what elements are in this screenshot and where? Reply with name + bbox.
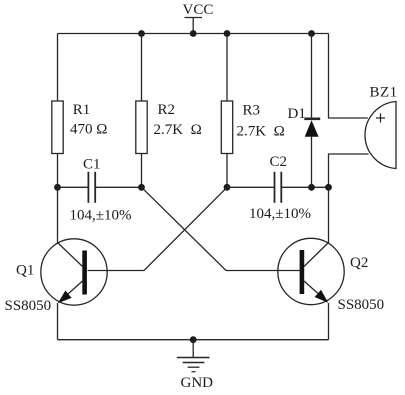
- wire C2 right lead: [281, 186, 328, 188]
- wire R3 top lead: [226, 34, 228, 102]
- svg-text:2.7K Ω: 2.7K Ω: [154, 122, 202, 138]
- plus polarity mark: [376, 114, 385, 123]
- junction D1 bottom: [308, 184, 315, 191]
- buzzer BZ1: [365, 102, 396, 169]
- junction D1 top: [308, 30, 315, 37]
- junction GND: [190, 336, 197, 343]
- svg-text:104,±10%: 104,±10%: [70, 208, 132, 224]
- svg-text:R2: R2: [158, 102, 176, 118]
- resistor R3: [221, 101, 232, 154]
- wire D1 bottom lead: [311, 136, 313, 187]
- resistor R1: [52, 101, 63, 154]
- transistor Q2: [278, 238, 344, 304]
- wire R3 bottom lead: [226, 154, 228, 188]
- wire D1 top lead: [311, 34, 313, 119]
- power symbol VCC: [185, 18, 203, 34]
- wire C1 right lead: [95, 186, 141, 188]
- node B (R2/C1/cross to Q2 base): [138, 184, 145, 191]
- wire Q1 emitter lead: [57, 303, 59, 340]
- svg-text:VCC: VCC: [183, 2, 214, 18]
- svg-text:104,±10%: 104,±10%: [249, 206, 311, 222]
- wire Q2 emitter lead: [328, 303, 330, 340]
- wire buzzer bottom lead: [329, 154, 369, 187]
- transistor Q1: [41, 239, 107, 305]
- junction R2 top: [138, 30, 145, 37]
- svg-text:SS8050: SS8050: [5, 298, 52, 314]
- wire buzzer top lead: [329, 34, 368, 119]
- diode D1: [304, 119, 320, 137]
- wire Q2 base to node B (cross-coupling): [142, 187, 300, 270]
- svg-text:BZ1: BZ1: [370, 85, 398, 101]
- wire Q1 collector lead: [57, 187, 59, 243]
- wire R1 bottom lead: [57, 154, 59, 188]
- svg-text:SS8050: SS8050: [338, 297, 385, 313]
- svg-text:C1: C1: [83, 157, 101, 173]
- svg-text:C2: C2: [270, 154, 288, 170]
- junction buzzer bottom: [325, 184, 332, 191]
- svg-text:D1: D1: [288, 106, 306, 122]
- capacitor C2: [275, 172, 282, 203]
- svg-text:R1: R1: [73, 102, 91, 118]
- svg-text:GND: GND: [181, 375, 214, 391]
- wire Q2 collector lead: [328, 187, 330, 243]
- wire R2 bottom lead: [141, 154, 143, 188]
- capacitor C1: [88, 172, 95, 203]
- wire R1 top lead: [57, 34, 59, 102]
- node C (R3/C2/cross to Q1 base): [224, 184, 231, 191]
- svg-text:R3: R3: [243, 103, 261, 119]
- junction R3 top: [224, 30, 231, 37]
- node A (R1/C1/Q1 collector): [54, 184, 61, 191]
- wire bottom rail: [58, 339, 329, 341]
- wire top rail: [58, 33, 329, 35]
- wire C2 left lead: [227, 186, 275, 188]
- svg-text:470 Ω: 470 Ω: [70, 122, 107, 138]
- ground: [177, 340, 210, 372]
- svg-text:Q1: Q1: [16, 263, 34, 279]
- resistor R2: [136, 101, 147, 154]
- wire Q1 base to node C (cross-coupling): [88, 187, 227, 270]
- svg-text:2.7K Ω: 2.7K Ω: [237, 124, 285, 140]
- wire R2 top lead: [141, 34, 143, 102]
- junction VCC on top rail: [190, 30, 197, 37]
- svg-text:Q2: Q2: [350, 255, 368, 271]
- wire C1 left lead: [58, 186, 89, 188]
